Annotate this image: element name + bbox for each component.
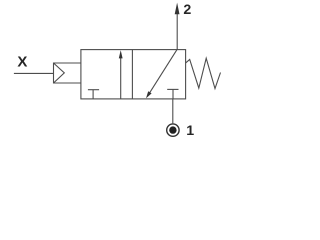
- svg-text:1: 1: [186, 123, 194, 139]
- svg-text:X: X: [17, 54, 27, 71]
- svg-text:2: 2: [183, 2, 191, 18]
